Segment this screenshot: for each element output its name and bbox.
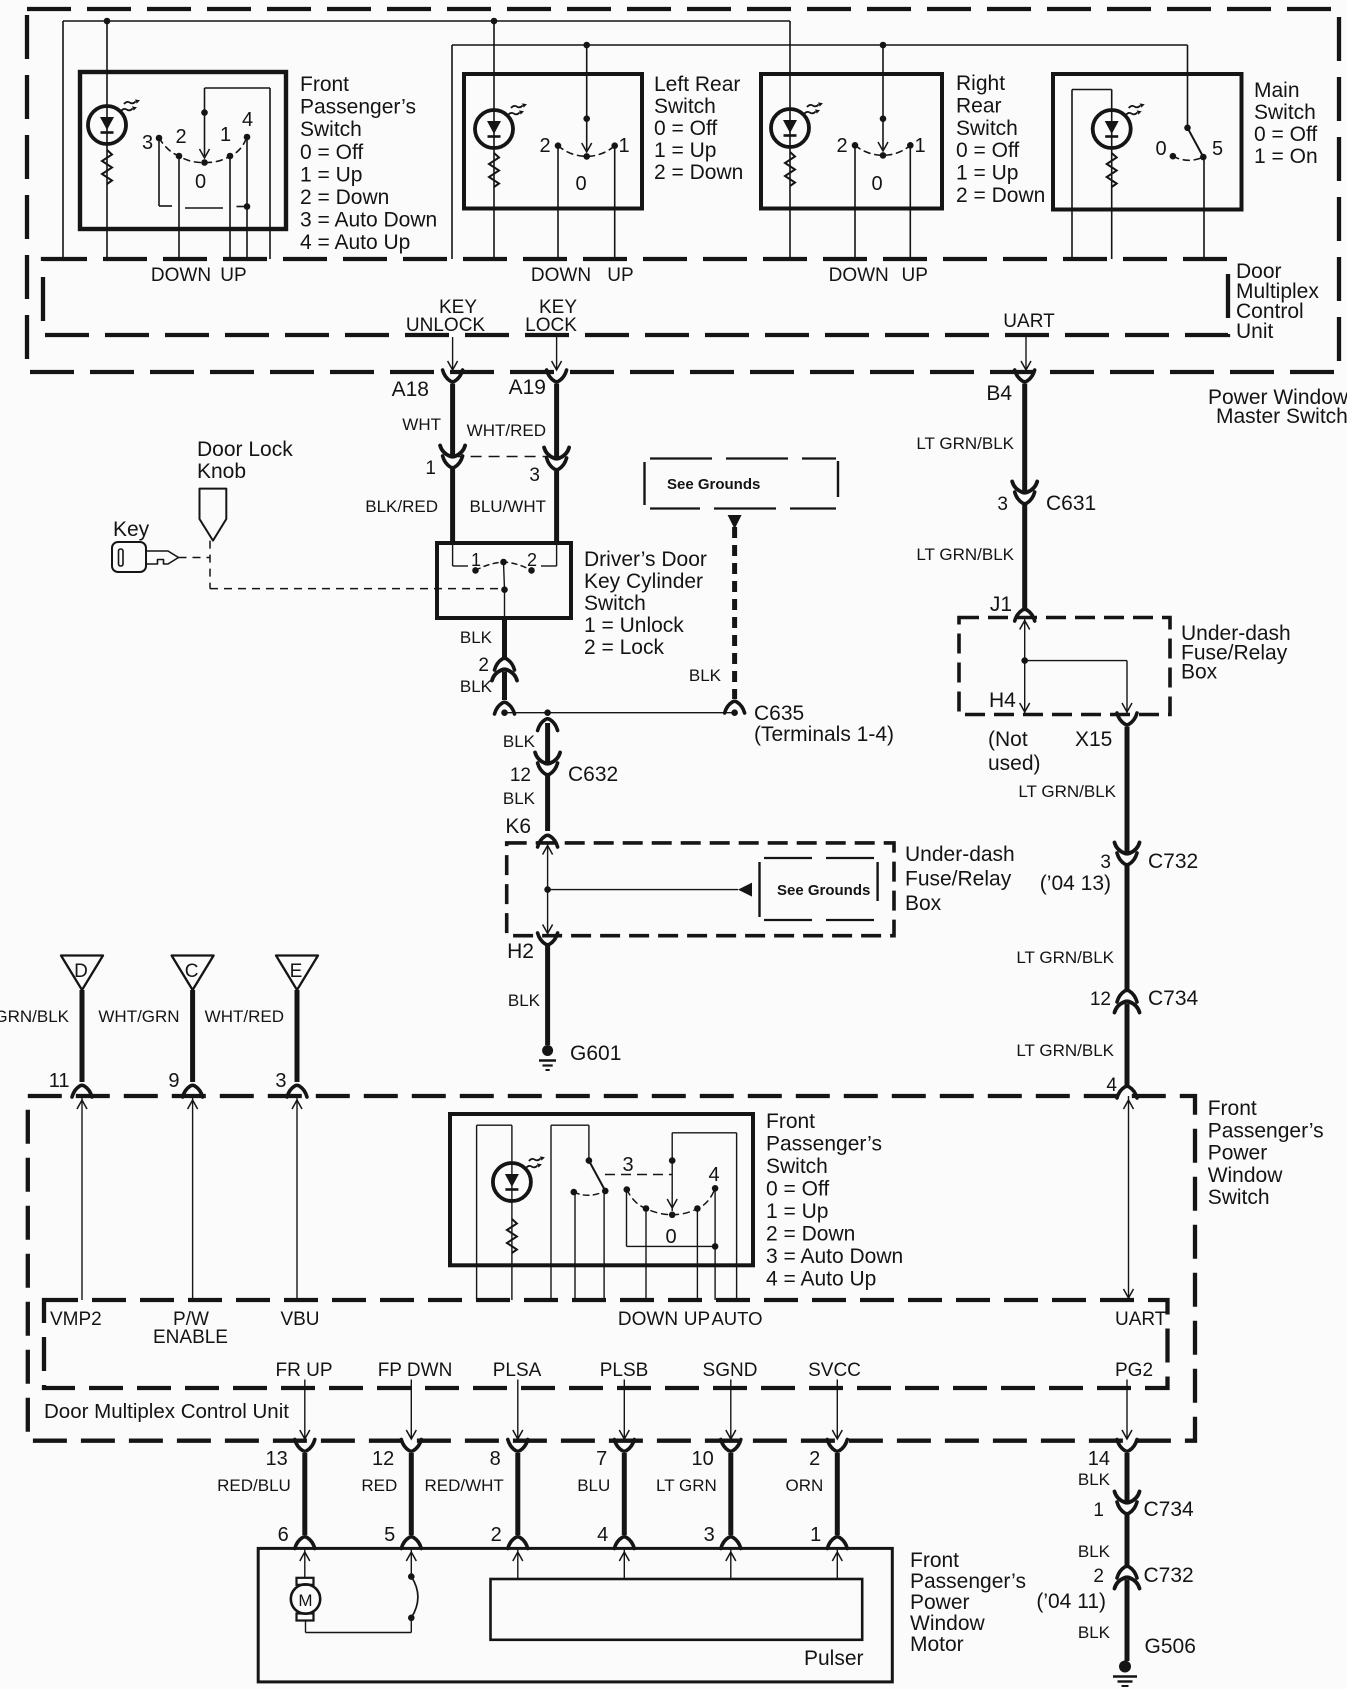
svg-text:1 = Up: 1 = Up: [300, 163, 362, 186]
wire UP right rear switch: [909, 145, 911, 259]
svg-text:used): used): [988, 752, 1041, 775]
lamp (front passenger's switch): [88, 99, 140, 144]
wire to J1 LT GRN/BLK: [1022, 504, 1027, 611]
svg-text:5: 5: [1212, 138, 1223, 160]
svg-text:Switch: Switch: [956, 117, 1018, 140]
svg-text:A19: A19: [509, 376, 546, 399]
key symbol: [112, 542, 179, 572]
svg-text:Box: Box: [905, 892, 942, 915]
feed arrow left rear switch: [582, 45, 592, 152]
terminal K6: [505, 815, 557, 847]
connector A18: [392, 370, 463, 401]
svg-text:A18: A18: [392, 378, 429, 401]
wire RED/BLU: [302, 1453, 307, 1535]
inline connector pin 1 (A18 branch): [425, 446, 465, 480]
svg-text:3: 3: [997, 494, 1008, 515]
ground G601: [539, 1042, 621, 1070]
legend main switch: [1254, 79, 1318, 168]
svg-text:BLU: BLU: [577, 1476, 610, 1495]
svg-text:G601: G601: [570, 1042, 621, 1065]
label (Not used): [988, 728, 1041, 775]
resistor (main switch lamp): [1107, 153, 1117, 187]
wire RED/WHT: [515, 1453, 520, 1535]
arrow pulser pin 1: [832, 1548, 842, 1579]
svg-text:E: E: [290, 961, 303, 982]
left rear switch box: [464, 74, 642, 209]
wire main switch feed from bus: [1187, 45, 1189, 128]
wire BLK C734-C732: [1125, 1514, 1130, 1568]
wire A18 BLK/RED: [450, 469, 455, 543]
svg-text:AUTO: AUTO: [711, 1308, 762, 1329]
ground tie wire horizontal: [505, 712, 735, 714]
main switch lever: [1170, 125, 1207, 161]
svg-text:Front: Front: [910, 1549, 959, 1572]
svg-text:2: 2: [836, 135, 847, 157]
arrow motor pin 6: [300, 1548, 310, 1577]
svg-text:4: 4: [242, 109, 253, 131]
svg-text:1: 1: [810, 1524, 821, 1546]
arrow output 13 from control unit: [300, 1380, 310, 1440]
arrow motor pin 5: [406, 1548, 416, 1576]
svg-text:2 = Down: 2 = Down: [956, 184, 1045, 207]
svg-text:Knob: Knob: [197, 460, 246, 483]
svg-text:1 = Unlock: 1 = Unlock: [584, 614, 684, 637]
commutator contact arc: [408, 1573, 418, 1621]
junction dot C632 branch: [544, 709, 551, 716]
wire BLK to K6: [545, 775, 550, 832]
svg-text:ENABLE: ENABLE: [153, 1327, 228, 1348]
motor M1: [291, 1578, 320, 1621]
svg-text:Fuse/Relay: Fuse/Relay: [905, 868, 1012, 891]
svg-text:Passenger’s: Passenger’s: [910, 1570, 1026, 1593]
svg-text:VBU: VBU: [280, 1309, 319, 1330]
svg-text:FR UP: FR UP: [276, 1360, 333, 1381]
junction dot bus2 / left rear feed: [583, 42, 590, 49]
wire GRN/BLK from connector D: [80, 990, 85, 1082]
svg-text:(’04 13): (’04 13): [1040, 872, 1111, 895]
svg-text:WHT/GRN: WHT/GRN: [98, 1007, 179, 1026]
svg-text:UP: UP: [901, 265, 927, 286]
svg-text:Right: Right: [956, 72, 1005, 95]
wire BLK (pin 14): [1125, 1453, 1130, 1503]
svg-text:14: 14: [1088, 1448, 1110, 1470]
lamp (bottom front passenger switch): [493, 1156, 545, 1201]
svg-text:LT GRN/BLK: LT GRN/BLK: [1016, 1041, 1114, 1060]
pulser box: [491, 1579, 863, 1640]
inline connector pin 3 (A19 branch): [529, 448, 569, 487]
svg-text:DOWN: DOWN: [618, 1309, 678, 1330]
svg-text:C734: C734: [1144, 1498, 1195, 1521]
junction dot internal (middle fuse box): [544, 886, 551, 893]
feed arrow front passenger's switch: [200, 109, 210, 158]
arrow PG2 output: [1122, 1380, 1132, 1440]
wire WHT/RED from connector E: [295, 990, 300, 1082]
arrow pulser pin 4: [619, 1548, 629, 1579]
svg-text:M: M: [298, 1591, 312, 1610]
svg-text:(’04 11): (’04 11): [1036, 1590, 1106, 1613]
wire bus1 left drop: [62, 21, 64, 259]
inline connector 3 C732 (04 13): [1040, 843, 1198, 896]
svg-text:LT GRN/BLK: LT GRN/BLK: [1018, 782, 1116, 801]
inline connector 1 C734 (bottom): [1093, 1492, 1194, 1522]
arrow output 8 from control unit: [513, 1380, 523, 1440]
junction dot bus1 / front lamp: [104, 18, 111, 25]
motor return wire: [306, 1618, 412, 1633]
svg-text:8: 8: [490, 1448, 501, 1470]
legend front passenger switch (bottom): [766, 1110, 903, 1291]
svg-text:0: 0: [871, 173, 882, 195]
wire WHT/GRN from connector C: [190, 990, 195, 1082]
contact labels left rear switch: [539, 135, 629, 195]
internal wire J1 to H4: [1020, 618, 1030, 714]
pin 14 connector: [1088, 1440, 1137, 1471]
wire lamp front passenger's switch: [106, 21, 108, 259]
wire DOWN front passenger's switch: [178, 156, 180, 259]
svg-text:Passenger’s: Passenger’s: [1208, 1119, 1324, 1142]
svg-text:PLSB: PLSB: [600, 1360, 649, 1381]
svg-text:RED/BLU: RED/BLU: [217, 1476, 291, 1495]
svg-text:1: 1: [425, 458, 436, 479]
svg-text:See Grounds: See Grounds: [667, 476, 760, 493]
svg-text:2: 2: [527, 550, 537, 570]
svg-text:10: 10: [692, 1448, 714, 1470]
feed loop front passenger's switch: [205, 88, 271, 113]
label Door Lock Knob: [197, 438, 293, 483]
svg-text:4 = Auto Up: 4 = Auto Up: [300, 231, 410, 254]
front passenger's power window motor box: [258, 1548, 892, 1682]
junction dot bus2 / right rear feed: [880, 42, 887, 49]
ground G506: [1113, 1635, 1196, 1686]
connector A19: [509, 370, 567, 399]
wire lamp right rear switch: [789, 21, 791, 259]
wire A18 WHT: [450, 384, 455, 457]
wire BLK below key cylinder: [502, 618, 507, 659]
svg-text:1: 1: [914, 135, 925, 157]
pin label KEY LOCK: [525, 297, 577, 336]
svg-text:H4: H4: [989, 689, 1016, 712]
svg-text:WHT: WHT: [402, 415, 441, 434]
svg-text:3: 3: [275, 1070, 286, 1092]
svg-text:DOWN: DOWN: [829, 265, 889, 286]
selector loop wire (bottom switch): [551, 1125, 589, 1300]
feed arrow (bottom switch): [667, 1133, 677, 1218]
svg-text:2: 2: [478, 655, 489, 676]
svg-text:12: 12: [372, 1448, 394, 1470]
svg-text:5: 5: [384, 1524, 395, 1546]
inline connector 12 C632: [510, 753, 618, 787]
wire position 3 branch: [159, 138, 172, 206]
svg-text:Switch: Switch: [300, 118, 362, 141]
svg-text:3: 3: [1100, 852, 1111, 873]
motor pin 1: [810, 1524, 847, 1549]
svg-text:UART: UART: [1115, 1309, 1167, 1330]
under-dash fuse/relay box (right) dashed box: [959, 618, 1170, 715]
legend front passenger's switch: [300, 73, 437, 254]
dashed link to key cylinder switch: [210, 588, 505, 590]
right rear switch box: [761, 74, 942, 209]
pin 3 (door multiplex control unit): [275, 1070, 307, 1097]
svg-text:Door Multiplex Control Unit: Door Multiplex Control Unit: [44, 1400, 289, 1423]
svg-text:Passenger’s: Passenger’s: [300, 96, 416, 119]
main switch box: [1053, 74, 1242, 210]
switch contacts front passenger's switch: [156, 134, 251, 166]
svg-text:2 = Lock: 2 = Lock: [584, 636, 664, 659]
motor pin 4: [597, 1524, 634, 1549]
terminal H2: [507, 933, 557, 963]
terminal X15: [1075, 713, 1137, 751]
svg-text:12: 12: [510, 765, 531, 786]
pin label P/W ENABLE: [153, 1309, 228, 1348]
contact labels right rear switch: [836, 135, 925, 195]
svg-text:UNLOCK: UNLOCK: [406, 315, 486, 336]
svg-text:BLK: BLK: [460, 677, 493, 696]
wire bus 2 (switch feed): [452, 44, 1188, 46]
svg-text:13: 13: [266, 1448, 288, 1470]
lamp (right rear switch): [771, 102, 823, 147]
svg-text:BLU/WHT: BLU/WHT: [470, 497, 547, 516]
svg-text:BLK: BLK: [503, 789, 536, 808]
wire C734 to pin 4 LT GRN/BLK: [1125, 1004, 1130, 1087]
wire bus 1 (lamp feed, top): [63, 20, 790, 22]
svg-text:9: 9: [168, 1070, 179, 1092]
see grounds reference box (upper): [645, 459, 839, 509]
key cylinder inner bracket left: [453, 543, 468, 566]
connector B4: [986, 370, 1034, 405]
main switch lamp loop wire: [1072, 90, 1112, 260]
wire A19 BLU/WHT: [554, 471, 559, 543]
svg-text:3 = Auto Down: 3 = Auto Down: [300, 209, 437, 232]
lamp (left rear switch): [475, 103, 527, 148]
svg-text:SGND: SGND: [703, 1360, 758, 1381]
svg-text:2: 2: [1093, 1566, 1104, 1587]
switch contacts right rear switch: [852, 142, 914, 159]
svg-text:LT GRN: LT GRN: [656, 1476, 717, 1495]
wire lever contact down: [603, 1191, 605, 1300]
svg-text:FP DWN: FP DWN: [378, 1360, 453, 1381]
svg-text:D: D: [74, 961, 88, 982]
arrow output 2 from control unit: [832, 1380, 842, 1440]
inline connector 12 C734: [1090, 987, 1199, 1013]
svg-text:C: C: [185, 961, 199, 982]
svg-text:0: 0: [1155, 138, 1166, 160]
legend driver's door key cylinder switch: [584, 548, 707, 659]
door multiplex control unit dashed box (bottom): [44, 1300, 1168, 1388]
see grounds reference box (middle): [760, 858, 878, 920]
svg-text:DOWN: DOWN: [531, 265, 591, 286]
wire lamp (bottom switch): [511, 1125, 513, 1300]
wire X15 LT GRN/BLK: [1125, 727, 1130, 854]
under-dash fuse/relay box (middle) dashed box: [507, 843, 894, 936]
internal wire to see grounds (middle): [548, 889, 738, 891]
arrow pulser pin 2: [513, 1548, 523, 1579]
svg-text:0 = Off: 0 = Off: [654, 117, 717, 140]
svg-text:LT GRN/BLK: LT GRN/BLK: [916, 434, 1014, 453]
svg-text:Switch: Switch: [1208, 1186, 1270, 1209]
svg-text:1: 1: [471, 550, 481, 570]
svg-text:BLK/RED: BLK/RED: [365, 497, 438, 516]
svg-text:Main: Main: [1254, 79, 1300, 102]
inline connector 3 C631: [997, 482, 1096, 516]
svg-text:Box: Box: [1181, 661, 1218, 684]
svg-text:G506: G506: [1145, 1635, 1196, 1658]
svg-text:RED: RED: [361, 1476, 397, 1495]
motor pin 2: [491, 1524, 528, 1549]
dashed link knob vertical: [209, 541, 211, 589]
svg-text:0: 0: [195, 171, 206, 193]
svg-text:PG2: PG2: [1115, 1360, 1153, 1381]
svg-text:Switch: Switch: [1254, 101, 1316, 124]
svg-text:3 = Auto Down: 3 = Auto Down: [766, 1245, 903, 1268]
wire BLK to C632: [545, 723, 550, 763]
arrow key unlock output: [448, 337, 458, 370]
svg-text:X15: X15: [1075, 728, 1112, 751]
connector triangle C: [172, 956, 214, 991]
driver's door key cylinder switch box: [437, 543, 571, 618]
wire LT GRN: [728, 1453, 733, 1535]
svg-text:C631: C631: [1046, 492, 1096, 515]
lamp (main switch): [1093, 103, 1145, 148]
svg-text:Window: Window: [910, 1612, 986, 1635]
connector dashed tie line: [453, 456, 557, 458]
svg-text:1 = Up: 1 = Up: [766, 1200, 828, 1223]
label Front Passenger's Power Window Switch: [1208, 1097, 1324, 1209]
svg-text:Pulser: Pulser: [804, 1647, 864, 1670]
svg-text:Motor: Motor: [910, 1633, 964, 1656]
svg-text:Switch: Switch: [584, 592, 646, 615]
svg-text:1: 1: [618, 135, 629, 157]
dashed link key to knob line: [179, 557, 211, 559]
svg-text:C635: C635: [754, 702, 804, 725]
wire DOWN right rear switch: [854, 145, 856, 259]
legend left rear switch: [654, 73, 743, 184]
svg-text:PLSA: PLSA: [493, 1360, 542, 1381]
svg-text:0 = Off: 0 = Off: [1254, 123, 1317, 146]
svg-text:GRN/BLK: GRN/BLK: [0, 1007, 70, 1026]
svg-text:Door Lock: Door Lock: [197, 438, 293, 461]
wire position 4 branch: [237, 137, 251, 259]
lever (bottom switch): [586, 1157, 609, 1194]
pin 13 connector: [266, 1440, 315, 1471]
svg-text:1 = Up: 1 = Up: [956, 162, 1018, 185]
inline connector 2 C635: [478, 655, 517, 681]
svg-text:Window: Window: [1208, 1164, 1284, 1187]
wire UP left rear switch: [614, 146, 616, 259]
svg-text:12: 12: [1090, 989, 1111, 1010]
arrowhead from see grounds (solid): [728, 515, 742, 529]
key cylinder inner bracket right: [541, 543, 557, 566]
wire BLK to G506: [1125, 1580, 1130, 1662]
svg-text:Front: Front: [1208, 1097, 1257, 1120]
svg-text:BLK: BLK: [1078, 1470, 1111, 1489]
svg-text:UART: UART: [1003, 311, 1055, 332]
pin 4 front passenger power window switch: [1106, 1075, 1137, 1098]
svg-text:3: 3: [704, 1524, 715, 1546]
arrow into switch box pin 9: [188, 1096, 198, 1300]
wire lamp left rear switch: [493, 21, 495, 259]
wire end cup at junction: [495, 702, 515, 714]
junction dot key cylinder ground node: [501, 709, 508, 716]
svg-text:C632: C632: [568, 763, 618, 786]
svg-text:Master Switch: Master Switch: [1216, 405, 1347, 428]
svg-text:4: 4: [597, 1524, 608, 1546]
svg-text:BLK: BLK: [1078, 1623, 1111, 1642]
svg-text:BLK: BLK: [503, 732, 536, 751]
wire AUTO (bottom switch): [712, 1188, 719, 1300]
feed arrow right rear switch: [878, 45, 888, 151]
wire main switch position 5: [1203, 157, 1205, 259]
junction dot (right fuse box): [1021, 657, 1028, 664]
svg-text:0 = Off: 0 = Off: [956, 139, 1019, 162]
motor pin 3: [704, 1524, 741, 1549]
internal wire K6 to H2: [543, 843, 553, 936]
wire BLK to junction: [502, 672, 507, 701]
arrow key lock output: [552, 337, 562, 370]
pin 9 (door multiplex control unit): [168, 1070, 202, 1097]
svg-text:WHT/RED: WHT/RED: [467, 421, 546, 440]
svg-text:SVCC: SVCC: [808, 1360, 861, 1381]
svg-text:3: 3: [622, 1154, 633, 1176]
pin 2 connector: [809, 1440, 847, 1471]
svg-text:B4: B4: [986, 382, 1012, 405]
arrow into switch box pin 3: [292, 1096, 302, 1300]
svg-text:LOCK: LOCK: [525, 315, 577, 336]
wire C732 to C734 LT GRN/BLK: [1125, 865, 1130, 992]
svg-text:Left Rear: Left Rear: [654, 73, 740, 96]
svg-text:LT GRN/BLK: LT GRN/BLK: [916, 545, 1014, 564]
motor pin 5: [384, 1524, 421, 1549]
terminal J1: [990, 593, 1035, 621]
wire bus2 left drop (key unlock line): [451, 45, 453, 259]
connector triangle D: [61, 956, 103, 991]
svg-text:See Grounds: See Grounds: [777, 882, 870, 899]
lamp loop wire (bottom switch): [477, 1125, 512, 1300]
wire auto feed right: [269, 88, 271, 259]
wire position 0 bracket: [185, 207, 223, 209]
svg-text:2: 2: [539, 135, 550, 157]
switch contacts left rear switch: [555, 142, 618, 159]
dashed line position 3: [605, 1174, 672, 1176]
svg-text:Unit: Unit: [1236, 320, 1274, 343]
svg-text:ORN: ORN: [786, 1476, 824, 1495]
contact position labels front passenger's switch: [142, 109, 253, 193]
resistor (right rear switch lamp): [785, 152, 795, 186]
svg-text:Power: Power: [910, 1591, 970, 1614]
svg-text:1 = On: 1 = On: [1254, 145, 1318, 168]
wire BLU: [622, 1453, 627, 1535]
connector triangle E: [276, 956, 318, 991]
label Under-dash Fuse/Relay Box (right): [1181, 622, 1291, 684]
svg-text:0 = Off: 0 = Off: [766, 1178, 829, 1201]
svg-text:Front: Front: [766, 1110, 815, 1133]
svg-text:2: 2: [175, 126, 186, 148]
junction dot C635: [731, 709, 738, 716]
wire RED: [409, 1453, 414, 1535]
svg-text:3: 3: [142, 132, 153, 154]
svg-text:C734: C734: [1148, 987, 1199, 1010]
svg-text:2: 2: [491, 1524, 502, 1546]
svg-text:Switch: Switch: [654, 95, 716, 118]
wire A19 WHT/RED: [554, 384, 559, 459]
svg-text:(Not: (Not: [988, 728, 1028, 751]
contact labels main switch: [1155, 138, 1223, 160]
svg-text:2 = Down: 2 = Down: [654, 161, 743, 184]
pin 7 connector: [596, 1440, 634, 1471]
arrowhead to see grounds box 2 (solid): [738, 883, 752, 897]
svg-text:(Terminals 1-4): (Terminals 1-4): [754, 723, 894, 746]
wire UP (bottom switch): [696, 1209, 698, 1301]
pin label KEY UNLOCK: [406, 297, 486, 336]
svg-text:6: 6: [278, 1524, 289, 1546]
